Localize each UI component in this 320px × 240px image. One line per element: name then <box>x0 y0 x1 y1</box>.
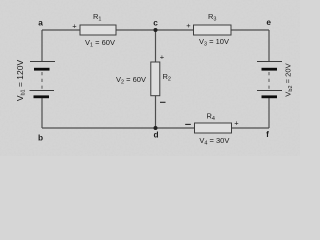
svg-text:V4 = 30V: V4 = 30V <box>199 136 229 147</box>
svg-text:V2 = 60V: V2 = 60V <box>116 75 146 86</box>
svg-text:V1 = 60V: V1 = 60V <box>85 38 115 49</box>
svg-text:V3 = 10V: V3 = 10V <box>199 37 229 48</box>
svg-text:e: e <box>266 17 271 27</box>
svg-text:+: + <box>186 21 191 30</box>
svg-text:b: b <box>38 133 43 143</box>
svg-text:+: + <box>72 22 77 31</box>
svg-text:f: f <box>266 129 269 139</box>
svg-text:d: d <box>153 130 158 140</box>
svg-text:c: c <box>153 18 158 28</box>
svg-text:+: + <box>160 53 165 62</box>
svg-text:+: + <box>234 119 239 128</box>
svg-text:a: a <box>38 18 43 28</box>
